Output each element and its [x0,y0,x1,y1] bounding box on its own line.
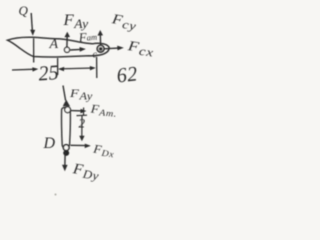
svg-text:A: A [49,37,59,52]
svg-text:2: 2 [79,116,86,131]
svg-text:25: 25 [38,62,59,86]
svg-text:D: D [43,135,56,152]
svg-text:62: 62 [116,63,139,88]
svg-text:Q: Q [19,3,29,18]
